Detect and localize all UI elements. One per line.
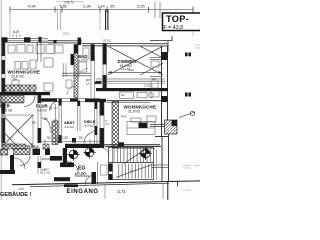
svg-text:PVC: PVC (121, 115, 127, 119)
svg-text:WOHNKÜCHE: WOHNKÜCHE (124, 104, 157, 110)
svg-text:4,0 m2: 4,0 m2 (65, 125, 75, 129)
svg-text:1 2 3: 1 2 3 (128, 170, 134, 173)
svg-text:1,07: 1,07 (7, 142, 13, 146)
svg-text:178,72: 178,72 (64, 1, 74, 5)
svg-text:90: 90 (32, 121, 36, 125)
svg-text:90: 90 (49, 106, 53, 110)
svg-text:2,25: 2,25 (137, 4, 146, 9)
svg-text:2,71: 2,71 (118, 189, 127, 194)
svg-text:5,8: 5,8 (13, 29, 19, 34)
svg-text:3,60: 3,60 (18, 187, 24, 191)
svg-text:4,6 m2: 4,6 m2 (37, 109, 47, 113)
svg-text:GEBÄUDE !: GEBÄUDE ! (0, 191, 32, 198)
svg-text:1,3: 1,3 (106, 123, 110, 126)
svg-text:4,60: 4,60 (128, 68, 134, 72)
svg-text:80: 80 (44, 117, 48, 121)
svg-text:25: 25 (110, 4, 115, 9)
svg-text:2,5 1: 2,5 1 (63, 32, 70, 36)
svg-text:4,94: 4,94 (28, 4, 37, 9)
svg-text:6,0 m2: 6,0 m2 (85, 124, 95, 128)
svg-text:TOP-: TOP- (166, 14, 189, 24)
svg-text:90: 90 (79, 136, 83, 140)
svg-text:F = 43,8: F = 43,8 (164, 25, 184, 31)
svg-text:1,5/2,8: 1,5/2,8 (144, 84, 153, 88)
svg-text:21,9 m2: 21,9 m2 (128, 110, 140, 114)
svg-text:EINGANG: EINGANG (67, 189, 99, 195)
svg-text:DU: DU (121, 94, 125, 97)
svg-text:2,01: 2,01 (49, 127, 53, 133)
svg-text:1,1 m2: 1,1 m2 (42, 171, 50, 175)
svg-text:11,6 m2: 11,6 m2 (1, 109, 13, 113)
svg-text:1,14: 1,14 (97, 4, 106, 9)
svg-text:1,6: 1,6 (86, 83, 90, 86)
svg-text:2,36: 2,36 (83, 4, 92, 9)
svg-text:90: 90 (47, 136, 51, 140)
svg-text:25 2,5: 25 2,5 (103, 39, 111, 43)
svg-text:750: 750 (13, 78, 18, 82)
svg-text:WC: WC (152, 77, 157, 81)
svg-text:±0,00: ±0,00 (75, 171, 87, 176)
svg-text:1,57: 1,57 (62, 136, 68, 140)
